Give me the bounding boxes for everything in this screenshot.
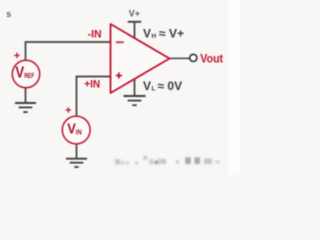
svg-text:s: s xyxy=(6,9,11,19)
svg-text:≈ 0V: ≈ 0V xyxy=(158,79,183,93)
svg-text:L: L xyxy=(152,86,156,93)
svg-text:IN: IN xyxy=(76,129,82,136)
svg-text:V: V xyxy=(67,121,76,137)
svg-text:H: H xyxy=(152,33,157,40)
svg-text:V: V xyxy=(143,79,151,93)
svg-text:≈ V+: ≈ V+ xyxy=(159,26,184,40)
svg-text:REF: REF xyxy=(24,73,35,80)
svg-text:+IN: +IN xyxy=(84,79,100,91)
svg-text:-IN: -IN xyxy=(88,29,102,41)
svg-text:V+: V+ xyxy=(129,9,140,19)
svg-text:Vout: Vout xyxy=(200,52,223,66)
svg-text:V: V xyxy=(143,26,151,40)
